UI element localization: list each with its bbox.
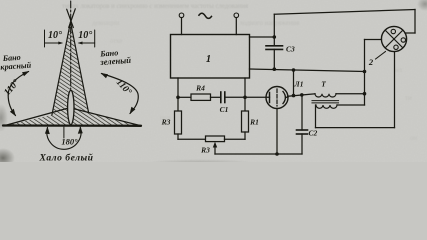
- svg-text:тинах локаторов и синхронно с: тинах локаторов и синхронно с изменением…: [62, 3, 248, 10]
- svg-text:Т: Т: [321, 80, 326, 89]
- svg-text:Л1: Л1: [294, 80, 304, 89]
- svg-text:R3: R3: [161, 118, 171, 127]
- svg-text:ходного напряжения: ходного напряжения: [240, 20, 299, 27]
- svg-text:10°: 10°: [78, 30, 92, 41]
- svg-text:С2: С2: [309, 129, 318, 138]
- svg-text:R1: R1: [249, 118, 259, 127]
- svg-text:R3: R3: [200, 146, 210, 155]
- svg-text:С3: С3: [286, 45, 295, 54]
- svg-text:С1: С1: [220, 105, 229, 114]
- svg-text:R4: R4: [195, 84, 205, 93]
- svg-text:отке: отке: [110, 38, 122, 45]
- svg-text:он: он: [410, 135, 417, 142]
- svg-text:10°: 10°: [48, 30, 62, 41]
- svg-text:ил: ил: [395, 67, 403, 74]
- svg-text:ти: ти: [405, 95, 412, 102]
- svg-text:Хало белый: Хало белый: [38, 153, 93, 163]
- svg-text:2: 2: [368, 57, 374, 67]
- svg-text:1: 1: [206, 54, 211, 65]
- svg-text:девиации: девиации: [92, 20, 120, 27]
- svg-text:180°: 180°: [61, 137, 78, 147]
